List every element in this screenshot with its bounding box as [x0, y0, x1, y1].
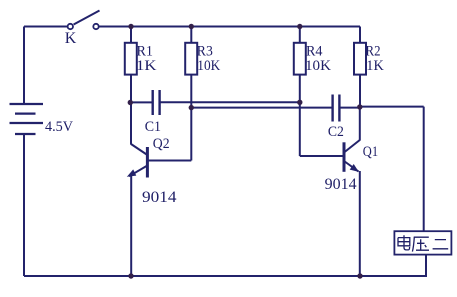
capacitor C2 [333, 95, 340, 122]
wire box bottom lead [425, 255, 427, 277]
box 电压二 (voltage two) [394, 231, 451, 254]
wire R2 bottom lead [359, 75, 361, 107]
svg-text:10K: 10K [197, 58, 220, 74]
transistor Q1 [344, 140, 360, 172]
wire R4 bottom lead [299, 75, 301, 103]
wire top rail left segment [24, 26, 68, 28]
wire R4 top lead [299, 27, 301, 43]
junction dot top rail R4 [297, 24, 302, 29]
junction dot top rail R3 [189, 24, 194, 29]
glyph 电 [398, 235, 410, 250]
wire R3 node down to Q2 base [190, 108, 192, 161]
box text 电压二 drawn as strokes [398, 235, 448, 251]
glyph 二 [433, 240, 449, 249]
wire left rail upper [23, 27, 25, 104]
wire R3 bottom lead [190, 75, 192, 108]
wire R2 node to right vertical [360, 106, 424, 108]
wire Q1 collector vertical [359, 107, 361, 141]
wire Q2 collector vertical [130, 103, 132, 145]
wire R3 top lead [190, 27, 192, 43]
transistor Q1 emitter arrowhead [350, 164, 359, 172]
switch K [68, 11, 100, 30]
wire C2 right to R2 node [340, 107, 360, 109]
wire bottom rail [24, 275, 426, 277]
svg-text:9014: 9014 [142, 189, 177, 206]
transistor Q2 emitter arrowhead [127, 169, 137, 176]
junction dot R2/C2/Q1 collector [357, 104, 362, 109]
glyph 压 [412, 237, 429, 251]
junction dot R3/C2/Q2 base [189, 105, 194, 110]
wire right vertical to box top [423, 107, 425, 232]
wire Q2 base lead [148, 160, 191, 162]
wire Q1 emitter vertical [359, 171, 361, 276]
wire lower coupling C2 to Q2 base node [191, 107, 332, 109]
resistor R4 [294, 43, 306, 75]
junction dot node A (R1/C1/Q2 collector) [128, 100, 133, 105]
junction dot Q1 emitter at bottom rail [357, 273, 362, 278]
wire C1 to Q1 base node [160, 101, 300, 103]
wire top rail right segment [99, 26, 360, 28]
wire node A to C1 [130, 101, 152, 103]
svg-text:1K: 1K [136, 58, 157, 74]
svg-text:1K: 1K [366, 58, 384, 74]
wire R1 bottom lead [130, 75, 132, 103]
svg-text:K: K [65, 30, 77, 47]
wire R2 top lead [359, 27, 361, 43]
junction dot top rail R1 [128, 24, 133, 29]
resistor R2 [354, 43, 366, 75]
svg-text:Q1: Q1 [363, 144, 378, 160]
wire left rail lower [23, 134, 25, 276]
wire Q1 base vertical [299, 102, 301, 156]
resistor R1 [125, 43, 137, 75]
capacitor C1 [153, 90, 160, 115]
wire Q2 emitter vertical [130, 176, 132, 277]
svg-text:9014: 9014 [325, 176, 357, 193]
junction dot Q2 emitter at bottom rail [128, 273, 133, 278]
svg-text:Q2: Q2 [153, 136, 170, 152]
resistor R3 [185, 43, 197, 75]
wire R1 top lead [130, 27, 132, 43]
svg-text:10K: 10K [305, 58, 332, 74]
svg-text:C1: C1 [145, 119, 161, 135]
svg-text:C2: C2 [328, 124, 344, 140]
junction dot R4/C1/Q1 base [297, 100, 302, 105]
battery B1 4.5V [10, 104, 44, 134]
transistor Q2 [129, 144, 147, 178]
svg-text:4.5V: 4.5V [45, 119, 73, 135]
wire Q1 base horizontal [300, 155, 344, 157]
